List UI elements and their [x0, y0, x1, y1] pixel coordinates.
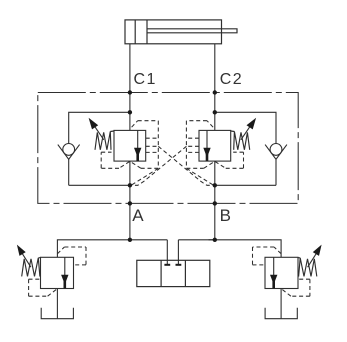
junction A upper	[128, 110, 132, 114]
horizontal jumper B to right stub	[178, 239, 214, 241]
svg-text:C1: C1	[134, 71, 157, 88]
node C1	[128, 90, 132, 94]
hydraulic cylinder	[125, 20, 237, 44]
service line A (vertical)	[129, 93, 131, 240]
junction dots	[128, 90, 217, 242]
junction B bottom	[213, 238, 217, 242]
node A	[128, 201, 132, 205]
check valve branch left	[58, 112, 130, 185]
svg-text:B: B	[220, 206, 231, 225]
junction B upper	[213, 110, 217, 114]
junction A lower	[128, 183, 132, 187]
port line C1	[129, 44, 131, 93]
blocked port tick right	[176, 264, 182, 266]
node B	[213, 201, 217, 205]
piston	[134, 20, 136, 44]
piston rod	[147, 29, 237, 33]
blocked port tick left	[164, 264, 170, 266]
counterbalance valve left (middle)	[89, 118, 214, 186]
junction A bottom	[128, 238, 132, 242]
horizontal jumper A to left stub	[130, 239, 167, 241]
counterbalance valve bottom left	[17, 240, 130, 319]
junction B lower	[213, 183, 217, 187]
counterbalance valve right (middle, mirrored)	[131, 118, 256, 186]
service line B (vertical)	[214, 93, 216, 240]
branch line to directional valve (right)	[177, 240, 179, 265]
manifold boundary (chain line)	[38, 93, 298, 204]
branch line to directional valve (left)	[166, 240, 168, 265]
port line C2	[214, 44, 216, 93]
svg-text:A: A	[132, 206, 144, 225]
directional control valve block	[137, 260, 210, 286]
counterbalance valve bottom right (mirrored)	[209, 240, 322, 319]
svg-text:C2: C2	[220, 71, 243, 88]
node C2	[213, 90, 217, 94]
check valve branch right (mirrored)	[215, 112, 287, 185]
